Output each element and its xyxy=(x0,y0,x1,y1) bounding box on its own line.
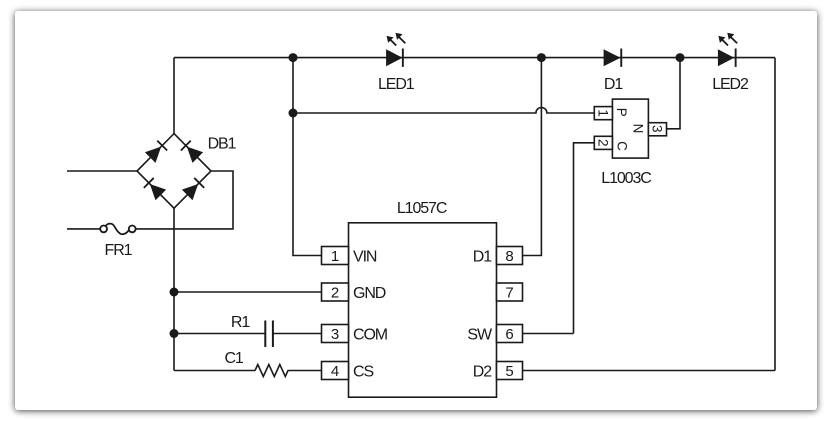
pin 5 box xyxy=(497,362,523,381)
svg-text:SW: SW xyxy=(467,327,493,344)
wire COM row right xyxy=(273,333,322,335)
svg-text:VIN: VIN xyxy=(353,249,377,266)
svg-text:LED2: LED2 xyxy=(712,76,749,93)
wire CS row left xyxy=(174,370,255,372)
L1003C pin 1 box xyxy=(594,107,612,120)
transistor U2 L1003C body xyxy=(612,99,648,158)
pin 8 box xyxy=(497,247,523,266)
pin 3 box xyxy=(322,325,349,344)
wire bridge bottom vertical xyxy=(173,208,175,370)
pin 4 box xyxy=(322,362,349,381)
L1003C pin 3 box xyxy=(648,123,666,136)
capacitor R1 xyxy=(265,321,273,348)
svg-text:2: 2 xyxy=(595,139,610,147)
wire SW pin6 row xyxy=(523,333,574,335)
IC U1 L1057C body xyxy=(349,223,497,397)
wire bridge right vertex down to fuse row xyxy=(136,171,233,229)
resistor C1 xyxy=(255,365,290,377)
wire VIN branch vertical xyxy=(293,58,322,256)
pin 2 box xyxy=(322,283,349,302)
svg-text:N: N xyxy=(631,124,646,134)
junction node top rail / VIN branch xyxy=(289,53,298,62)
bridge rectifier DB1 xyxy=(137,134,211,209)
svg-text:FR1: FR1 xyxy=(105,242,133,259)
svg-text:2: 2 xyxy=(331,285,339,302)
wire left vertical to bridge top xyxy=(173,58,175,134)
bridge diode upper-right xyxy=(180,140,203,163)
wire top rail xyxy=(174,57,775,59)
svg-text:R1: R1 xyxy=(231,314,250,331)
L1003C pin 2 box xyxy=(594,136,612,149)
junction node second rail xyxy=(289,109,298,118)
bridge diode upper-left xyxy=(145,140,168,163)
svg-text:1: 1 xyxy=(331,248,339,265)
pin 6 box xyxy=(497,325,523,344)
junction node top rail / L1003C pin3 xyxy=(676,53,685,62)
svg-text:C: C xyxy=(615,141,630,151)
wire CS row right xyxy=(290,370,322,372)
fuse FR1 xyxy=(100,224,135,235)
junction node top rail / pin8 wire xyxy=(537,53,546,62)
svg-text:6: 6 xyxy=(505,326,513,343)
svg-text:4: 4 xyxy=(331,363,339,380)
wire COM row left xyxy=(174,333,265,335)
bridge diode lower-right xyxy=(182,177,205,200)
LED2 xyxy=(718,33,737,67)
svg-text:D2: D2 xyxy=(473,364,492,381)
svg-text:DB1: DB1 xyxy=(208,136,237,153)
diode D1 xyxy=(604,49,623,67)
wire L1003C pin3 to top rail xyxy=(667,58,681,129)
svg-text:COM: COM xyxy=(353,327,388,344)
svg-text:8: 8 xyxy=(505,248,513,265)
wire D2 pin5 row xyxy=(523,370,776,372)
wire L1003C pin2 down xyxy=(574,143,595,334)
svg-text:CS: CS xyxy=(353,364,373,381)
svg-text:7: 7 xyxy=(505,285,513,302)
junction node COM row xyxy=(170,329,179,338)
svg-text:LED1: LED1 xyxy=(378,76,415,93)
svg-text:3: 3 xyxy=(650,125,665,133)
svg-text:D1: D1 xyxy=(473,249,492,266)
pin 1 box xyxy=(322,247,349,266)
svg-text:5: 5 xyxy=(505,363,513,380)
junction node GND row xyxy=(170,288,179,297)
wire second rail with hop xyxy=(293,108,594,113)
wire pin8 to top rail xyxy=(523,58,542,256)
svg-text:3: 3 xyxy=(331,326,339,343)
pin 7 box xyxy=(497,283,523,302)
wire GND row xyxy=(174,291,322,293)
svg-text:GND: GND xyxy=(353,285,386,302)
bridge diode lower-left xyxy=(143,177,166,200)
svg-text:C1: C1 xyxy=(224,350,243,367)
wire right vertical xyxy=(774,58,776,371)
svg-text:L1003C: L1003C xyxy=(601,170,651,187)
svg-text:P: P xyxy=(614,108,629,117)
wire AC input upper xyxy=(67,170,137,172)
LED1 xyxy=(386,33,405,67)
svg-text:L1057C: L1057C xyxy=(397,200,447,217)
svg-text:D1: D1 xyxy=(604,76,623,93)
svg-text:1: 1 xyxy=(595,109,610,117)
wire AC input lower to fuse xyxy=(67,228,100,230)
